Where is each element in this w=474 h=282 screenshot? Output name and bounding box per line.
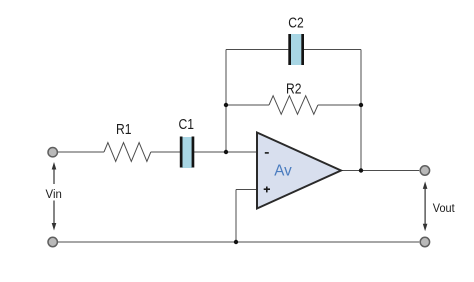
svg-text:C1: C1 xyxy=(178,116,194,133)
svg-text:C2: C2 xyxy=(288,15,304,32)
svg-text:Av: Av xyxy=(274,163,292,180)
svg-text:Vout: Vout xyxy=(433,203,456,215)
svg-text:Vin: Vin xyxy=(46,189,62,201)
svg-text:R1: R1 xyxy=(116,121,132,138)
svg-text:R2: R2 xyxy=(286,80,302,97)
